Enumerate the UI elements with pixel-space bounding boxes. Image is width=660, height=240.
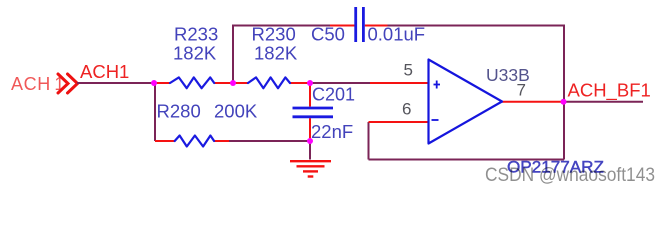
- junction dot: node A (R233/R230): [230, 80, 236, 86]
- wire: feedback left vertical to pin 6 (purple): [368, 122, 370, 160]
- junction dot: ground node: [307, 138, 313, 144]
- ground: [290, 161, 331, 176]
- svg-text:ACH1: ACH1: [11, 74, 65, 94]
- wire: port to input junction (purple): [77, 82, 154, 84]
- wire: top feedback line right of C50 (purple): [388, 25, 565, 27]
- op-amp U33B triangle: [429, 60, 503, 144]
- wire: R280 left red stub: [155, 140, 175, 142]
- wire: C50 left red stub: [330, 25, 355, 27]
- wire: right vertical from top line through output to feedback bottom (purple): [563, 25, 565, 160]
- svg-text:R280: R280: [157, 101, 201, 122]
- port ACH1 chevron symbol: [58, 74, 78, 93]
- wire: C201 bottom to ground node (red): [309, 118, 311, 141]
- wire: stub under ACH_BF1 label (purple): [564, 101, 644, 103]
- junction dot: output node: [561, 99, 567, 105]
- capacitor C50 plates: [356, 7, 364, 42]
- op-amp minus input mark: [432, 119, 439, 121]
- junction dot: input node: [151, 80, 157, 86]
- wire: ground node down to ground symbol (purple): [309, 141, 311, 160]
- wire: op-amp pin 5 stub (red): [370, 82, 429, 84]
- resistor R280: [175, 136, 214, 147]
- wire: pin 6 input (red): [369, 121, 429, 123]
- wire: junction A up to top feedback line (purple): [232, 26, 234, 84]
- svg-text:C50: C50: [311, 24, 345, 45]
- wire: node B to pin 5 stub (purple): [310, 82, 370, 84]
- svg-text:5: 5: [404, 61, 413, 80]
- wire: input junction down to R280 row (purple): [154, 83, 156, 141]
- op-amp plus input mark: [434, 81, 441, 89]
- resistor R230: [248, 77, 290, 88]
- wire: R233 to R230 (red): [214, 82, 248, 84]
- svg-text:0.01uF: 0.01uF: [368, 24, 426, 45]
- wire: R280 row purple segment to ground node: [229, 140, 310, 142]
- svg-text:ACH_BF1: ACH_BF1: [568, 80, 651, 102]
- svg-text:182K: 182K: [173, 43, 217, 64]
- wire: top feedback line left of C50 (purple): [232, 25, 330, 27]
- wire: feedback bottom horizontal (purple): [369, 159, 565, 161]
- svg-text:6: 6: [402, 100, 411, 119]
- junction dot: node B (C201 top): [307, 80, 313, 86]
- capacitor C201 plates: [293, 108, 334, 117]
- wire: node B down to C201 (red): [309, 83, 311, 107]
- svg-text:R230: R230: [252, 24, 296, 45]
- svg-text:22nF: 22nF: [311, 121, 353, 142]
- wire: R230 to node B (red): [290, 82, 312, 84]
- svg-text:200K: 200K: [214, 101, 258, 122]
- wire: main line junction to R233 (red): [154, 82, 170, 84]
- svg-text:182K: 182K: [254, 43, 298, 64]
- svg-text:R233: R233: [174, 24, 218, 45]
- wire: R280 right red stub: [214, 140, 229, 142]
- svg-text:7: 7: [517, 81, 526, 100]
- svg-text:ACH1: ACH1: [80, 61, 129, 82]
- wire: op-amp output (red): [502, 101, 564, 103]
- svg-text:CSDN @wnaosoft143: CSDN @wnaosoft143: [485, 164, 655, 186]
- resistor R233: [170, 77, 214, 88]
- svg-text:C201: C201: [312, 85, 355, 105]
- wire: C50 right red stub: [365, 25, 388, 27]
